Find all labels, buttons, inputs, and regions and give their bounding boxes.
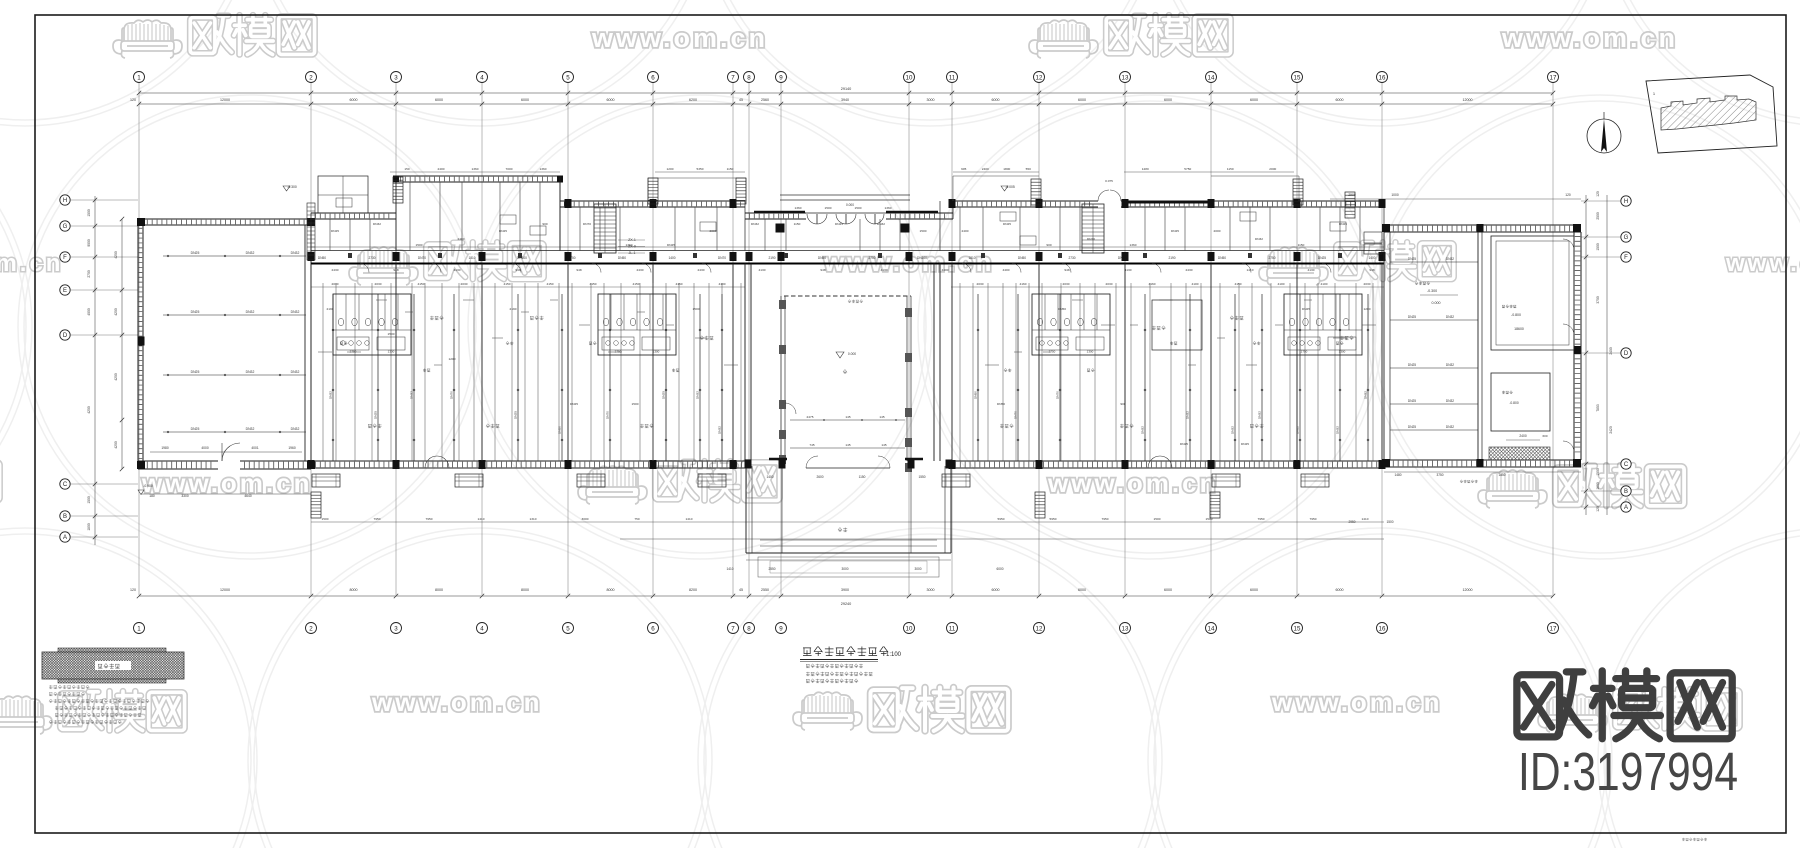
svg-text:2400: 2400 bbox=[458, 237, 465, 241]
svg-text:7950: 7950 bbox=[1258, 517, 1265, 521]
svg-text:5350: 5350 bbox=[697, 167, 704, 171]
svg-text:10: 10 bbox=[906, 625, 913, 632]
svg-text:8200: 8200 bbox=[689, 588, 697, 592]
svg-text:2030: 2030 bbox=[332, 282, 339, 286]
svg-text:5: 5 bbox=[566, 625, 570, 632]
svg-text:2030: 2030 bbox=[375, 282, 382, 286]
svg-text:1500: 1500 bbox=[855, 206, 862, 210]
svg-text:G: G bbox=[63, 224, 68, 230]
svg-text:1500: 1500 bbox=[87, 209, 91, 217]
main corridor walls bbox=[311, 250, 1384, 252]
svg-text:1300: 1300 bbox=[1339, 350, 1346, 354]
svg-text:DN32: DN32 bbox=[751, 222, 759, 226]
svg-text:-0.900: -0.900 bbox=[143, 484, 153, 488]
svg-text:4150: 4150 bbox=[1235, 282, 1242, 286]
svg-text:0.000: 0.000 bbox=[1432, 301, 1441, 305]
svg-text:1: 1 bbox=[137, 625, 141, 632]
svg-text:2030: 2030 bbox=[977, 282, 984, 286]
svg-text:15: 15 bbox=[1294, 625, 1301, 632]
svg-text:DN25: DN25 bbox=[1408, 425, 1416, 429]
svg-text:6: 6 bbox=[651, 625, 655, 632]
svg-text:1360: 1360 bbox=[1130, 243, 1137, 247]
svg-text:DN25: DN25 bbox=[331, 229, 339, 233]
toilet fixture clusters bbox=[333, 294, 411, 355]
svg-text:DN32: DN32 bbox=[373, 222, 381, 226]
svg-text:1150: 1150 bbox=[859, 475, 866, 479]
svg-text:7950: 7950 bbox=[374, 517, 381, 521]
svg-text:1500: 1500 bbox=[920, 229, 927, 233]
svg-text:145: 145 bbox=[879, 415, 884, 419]
svg-text:F: F bbox=[1624, 255, 1628, 261]
svg-text:3000: 3000 bbox=[582, 517, 589, 521]
svg-text:DN32: DN32 bbox=[291, 427, 300, 431]
svg-text:DN70: DN70 bbox=[1014, 411, 1018, 419]
svg-text:948: 948 bbox=[1369, 268, 1374, 272]
svg-text:2560: 2560 bbox=[761, 98, 769, 102]
svg-text:550: 550 bbox=[1026, 167, 1031, 171]
svg-text:2190: 2190 bbox=[327, 307, 334, 311]
svg-text:4200: 4200 bbox=[114, 251, 118, 259]
svg-text:4200: 4200 bbox=[114, 308, 118, 316]
svg-text:-0.800: -0.800 bbox=[1511, 313, 1521, 317]
svg-text:8000: 8000 bbox=[435, 588, 443, 592]
svg-text:DN70: DN70 bbox=[450, 391, 454, 399]
svg-text:4000: 4000 bbox=[201, 446, 209, 450]
svg-text:DN70: DN70 bbox=[418, 256, 426, 260]
svg-text:1410: 1410 bbox=[686, 517, 693, 521]
svg-text:1360: 1360 bbox=[540, 167, 547, 171]
svg-text:DN70: DN70 bbox=[1087, 237, 1095, 241]
svg-text:1500: 1500 bbox=[416, 243, 423, 247]
svg-text:H: H bbox=[1624, 199, 1628, 205]
svg-text:4640: 4640 bbox=[244, 494, 252, 498]
svg-text:www.om.cn: www.om.cn bbox=[1271, 687, 1443, 717]
svg-text:4100: 4100 bbox=[1278, 282, 1285, 286]
svg-text:2030: 2030 bbox=[461, 282, 468, 286]
svg-text:29240: 29240 bbox=[841, 602, 852, 606]
svg-text:1360: 1360 bbox=[472, 167, 479, 171]
svg-text:1150: 1150 bbox=[1227, 167, 1234, 171]
svg-text:DN32: DN32 bbox=[1231, 426, 1235, 434]
svg-text:2750: 2750 bbox=[1301, 350, 1308, 354]
svg-text:E: E bbox=[63, 288, 67, 294]
svg-text:6000: 6000 bbox=[992, 588, 1000, 592]
svg-text:1000: 1000 bbox=[1391, 193, 1399, 197]
svg-text:3700: 3700 bbox=[1596, 296, 1600, 304]
svg-text:2030: 2030 bbox=[1063, 282, 1070, 286]
svg-text:6000: 6000 bbox=[992, 98, 1000, 102]
svg-text:2475: 2475 bbox=[807, 415, 814, 419]
svg-text:DN32: DN32 bbox=[291, 370, 300, 374]
svg-text:4100: 4100 bbox=[719, 282, 726, 286]
svg-text:ID:3197994: ID:3197994 bbox=[1518, 742, 1738, 802]
svg-text:7950: 7950 bbox=[426, 517, 433, 521]
svg-text:H: H bbox=[63, 198, 67, 204]
svg-text:2400: 2400 bbox=[1519, 434, 1527, 438]
svg-text:DN32: DN32 bbox=[410, 391, 414, 399]
svg-text:1150: 1150 bbox=[794, 222, 801, 226]
site logo OMW bbox=[1517, 671, 1732, 739]
svg-text:145: 145 bbox=[881, 443, 886, 447]
svg-text:900: 900 bbox=[542, 222, 547, 226]
svg-text:4160: 4160 bbox=[676, 282, 683, 286]
svg-text:12: 12 bbox=[1036, 74, 1043, 81]
svg-text:0.075: 0.075 bbox=[1105, 179, 1113, 183]
svg-text:0.000: 0.000 bbox=[846, 203, 854, 207]
svg-text:3940: 3940 bbox=[841, 98, 849, 102]
svg-text:14: 14 bbox=[1208, 74, 1215, 81]
svg-text:DN25: DN25 bbox=[514, 411, 518, 419]
svg-text:DN32: DN32 bbox=[1258, 411, 1262, 419]
svg-text:4130: 4130 bbox=[881, 268, 888, 272]
svg-text:1310: 1310 bbox=[530, 517, 537, 521]
svg-text:C: C bbox=[1624, 462, 1629, 468]
svg-text:948: 948 bbox=[1064, 268, 1069, 272]
svg-text:DN32: DN32 bbox=[291, 251, 300, 255]
svg-text:DN25: DN25 bbox=[191, 251, 200, 255]
svg-text:2750: 2750 bbox=[1268, 256, 1275, 260]
svg-text:2730: 2730 bbox=[1068, 256, 1075, 260]
svg-text:600: 600 bbox=[1542, 434, 1547, 438]
svg-text:DN70: DN70 bbox=[718, 256, 726, 260]
svg-text:120: 120 bbox=[130, 588, 136, 592]
svg-text:6: 6 bbox=[651, 74, 655, 81]
svg-text:2430: 2430 bbox=[698, 268, 705, 272]
svg-text:DN32: DN32 bbox=[1296, 426, 1300, 434]
svg-text:C: C bbox=[63, 482, 68, 488]
svg-text:2000: 2000 bbox=[1214, 229, 1221, 233]
svg-text:1800: 1800 bbox=[87, 523, 91, 531]
svg-text:6000: 6000 bbox=[521, 98, 529, 102]
svg-text:2: 2 bbox=[309, 625, 313, 632]
interior staircases bbox=[594, 204, 616, 253]
svg-text:11: 11 bbox=[949, 625, 956, 632]
svg-text:16: 16 bbox=[1379, 74, 1386, 81]
svg-text:6000: 6000 bbox=[607, 98, 615, 102]
svg-text:DN32: DN32 bbox=[1336, 426, 1340, 434]
svg-text:13: 13 bbox=[1122, 74, 1129, 81]
svg-text:2190: 2190 bbox=[510, 307, 517, 311]
left annex (natatorium) walls bbox=[137, 219, 139, 469]
svg-text:1200: 1200 bbox=[449, 357, 456, 361]
svg-text:4150: 4150 bbox=[547, 282, 554, 286]
svg-text:1150: 1150 bbox=[727, 167, 734, 171]
svg-text:145: 145 bbox=[845, 415, 850, 419]
svg-text:4400: 4400 bbox=[1003, 268, 1010, 272]
svg-text:12000: 12000 bbox=[220, 588, 230, 592]
svg-text:15: 15 bbox=[1294, 74, 1301, 81]
svg-text:9000: 9000 bbox=[87, 239, 91, 247]
svg-text:DN50: DN50 bbox=[1058, 307, 1066, 311]
svg-text:4150: 4150 bbox=[633, 282, 640, 286]
svg-text:DN50: DN50 bbox=[974, 391, 978, 399]
svg-text:150: 150 bbox=[404, 167, 409, 171]
svg-text:DN32: DN32 bbox=[696, 391, 700, 399]
svg-text:DN25: DN25 bbox=[835, 222, 843, 226]
svg-text:6000: 6000 bbox=[1336, 98, 1344, 102]
svg-text:1500: 1500 bbox=[322, 517, 329, 521]
svg-text:2700: 2700 bbox=[87, 270, 91, 278]
svg-text:2950: 2950 bbox=[1348, 520, 1355, 524]
svg-text:DN25: DN25 bbox=[570, 402, 578, 406]
svg-text:120: 120 bbox=[1596, 506, 1600, 512]
svg-text:DN25: DN25 bbox=[191, 310, 200, 314]
svg-text:DN70: DN70 bbox=[583, 222, 591, 226]
svg-text:17: 17 bbox=[1550, 74, 1557, 81]
svg-text:2550: 2550 bbox=[761, 588, 769, 592]
svg-text:180: 180 bbox=[149, 494, 155, 498]
svg-text:DN32: DN32 bbox=[329, 391, 333, 399]
svg-text:B: B bbox=[1624, 489, 1628, 495]
svg-text:1800: 1800 bbox=[1003, 167, 1010, 171]
svg-text:DN25: DN25 bbox=[499, 229, 507, 233]
svg-text:4001: 4001 bbox=[251, 446, 259, 450]
svg-text:745: 745 bbox=[809, 443, 814, 447]
svg-text:DN25: DN25 bbox=[1180, 442, 1188, 446]
svg-text:6000: 6000 bbox=[1164, 98, 1172, 102]
svg-text:45: 45 bbox=[739, 98, 743, 102]
svg-text:8000: 8000 bbox=[521, 588, 529, 592]
svg-text:6000: 6000 bbox=[1164, 588, 1172, 592]
svg-text:1:100: 1:100 bbox=[886, 652, 902, 658]
svg-text:1980: 1980 bbox=[161, 446, 169, 450]
svg-text:DN32: DN32 bbox=[1446, 363, 1454, 367]
svg-text:DN50: DN50 bbox=[318, 256, 326, 260]
south exterior wall and bay windows bbox=[311, 460, 746, 462]
svg-text:DN32: DN32 bbox=[718, 426, 722, 434]
svg-text:8: 8 bbox=[747, 625, 751, 632]
svg-text:3: 3 bbox=[394, 74, 398, 81]
svg-text:2750: 2750 bbox=[1049, 350, 1056, 354]
svg-text:2750: 2750 bbox=[350, 350, 357, 354]
svg-text:2750: 2750 bbox=[615, 350, 622, 354]
room partition walls and pipe risers bbox=[310, 264, 312, 462]
svg-text:www.om.cn: www.om.cn bbox=[1725, 250, 1800, 277]
svg-text:3000: 3000 bbox=[927, 98, 935, 102]
svg-text:DN70: DN70 bbox=[1056, 391, 1060, 399]
svg-text:4150: 4150 bbox=[418, 282, 425, 286]
svg-text:4130: 4130 bbox=[1125, 268, 1132, 272]
svg-text:DN25: DN25 bbox=[1241, 442, 1249, 446]
svg-text:www.om.cn: www.om.cn bbox=[1047, 468, 1219, 498]
svg-text:6000: 6000 bbox=[1078, 98, 1086, 102]
key plan hatched bar bbox=[42, 648, 184, 683]
exterior stair ladders bbox=[393, 177, 403, 203]
svg-text:DN32: DN32 bbox=[1141, 426, 1145, 434]
svg-text:DN25: DN25 bbox=[374, 411, 378, 419]
north exterior walls bbox=[311, 212, 396, 214]
svg-text:2000: 2000 bbox=[1269, 167, 1276, 171]
svg-text:948: 948 bbox=[820, 268, 825, 272]
svg-text:A: A bbox=[1624, 505, 1628, 511]
svg-text:1300: 1300 bbox=[653, 350, 660, 354]
right annex (pool hall) walls bbox=[1384, 224, 1581, 226]
svg-text:2430: 2430 bbox=[332, 268, 339, 272]
svg-text:8: 8 bbox=[747, 74, 751, 81]
svg-text:1500: 1500 bbox=[693, 307, 700, 311]
svg-text:www.om.cn: www.om.cn bbox=[0, 250, 63, 277]
svg-text:DN32: DN32 bbox=[246, 370, 255, 374]
svg-text:905: 905 bbox=[961, 167, 966, 171]
svg-text:7853: 7853 bbox=[1596, 404, 1600, 412]
site key plan sketch bbox=[1646, 75, 1777, 153]
svg-text:F: F bbox=[63, 255, 67, 261]
svg-text:3000: 3000 bbox=[914, 567, 921, 571]
svg-text:DN25: DN25 bbox=[191, 370, 200, 374]
svg-text:5950: 5950 bbox=[1050, 517, 1057, 521]
svg-text:7000: 7000 bbox=[506, 167, 513, 171]
svg-text:1: 1 bbox=[137, 74, 141, 81]
svg-text:9: 9 bbox=[779, 74, 783, 81]
north arrow compass bbox=[1587, 119, 1621, 153]
north entrance doors bbox=[807, 214, 884, 224]
svg-text:11: 11 bbox=[949, 74, 956, 81]
svg-text:DN25: DN25 bbox=[1318, 256, 1326, 260]
svg-text:1200: 1200 bbox=[667, 167, 674, 171]
svg-text:1400: 1400 bbox=[766, 475, 773, 479]
svg-text:DN32: DN32 bbox=[1446, 399, 1454, 403]
svg-text:4130: 4130 bbox=[1308, 268, 1315, 272]
svg-text:1600: 1600 bbox=[1596, 482, 1600, 490]
svg-text:2750: 2750 bbox=[868, 256, 875, 260]
svg-text:1410: 1410 bbox=[726, 567, 733, 571]
svg-text:4200: 4200 bbox=[114, 373, 118, 381]
svg-text:16: 16 bbox=[1379, 625, 1386, 632]
svg-text:www.om.cn: www.om.cn bbox=[141, 468, 313, 498]
svg-text:DN32: DN32 bbox=[1446, 425, 1454, 429]
south entrance porch steps bbox=[745, 466, 747, 553]
drawing title and notes bbox=[803, 647, 888, 657]
svg-text:1400: 1400 bbox=[668, 256, 675, 260]
svg-text:1960: 1960 bbox=[288, 446, 296, 450]
svg-text:DN32: DN32 bbox=[246, 310, 255, 314]
svg-text:12000: 12000 bbox=[1463, 98, 1473, 102]
central lobby atrium bbox=[744, 264, 746, 462]
svg-text:8000: 8000 bbox=[607, 588, 615, 592]
svg-text:1550: 1550 bbox=[918, 475, 925, 479]
svg-text:1480: 1480 bbox=[1394, 473, 1401, 477]
svg-text:1150: 1150 bbox=[1298, 243, 1305, 247]
svg-text:5950: 5950 bbox=[998, 517, 1005, 521]
svg-text:DN32: DN32 bbox=[877, 222, 885, 226]
svg-text:DN50: DN50 bbox=[618, 256, 626, 260]
svg-text:DN25: DN25 bbox=[662, 391, 666, 399]
svg-text:4200: 4200 bbox=[87, 406, 91, 414]
svg-text:4: 4 bbox=[480, 74, 484, 81]
svg-text:DN32: DN32 bbox=[1186, 411, 1190, 419]
svg-text:1500: 1500 bbox=[1386, 520, 1393, 524]
svg-text:4100: 4100 bbox=[1192, 282, 1199, 286]
svg-text:-0.300: -0.300 bbox=[1427, 289, 1437, 293]
svg-text:G: G bbox=[1624, 235, 1629, 241]
svg-text:2030: 2030 bbox=[1364, 282, 1371, 286]
svg-text:DN100: DN100 bbox=[917, 256, 927, 260]
svg-text:2900: 2900 bbox=[1348, 193, 1356, 197]
svg-text:12: 12 bbox=[1036, 625, 1043, 632]
svg-text:DN50: DN50 bbox=[818, 256, 826, 260]
svg-text:D: D bbox=[1624, 351, 1629, 357]
svg-text:DN50: DN50 bbox=[1218, 256, 1226, 260]
svg-text:3000: 3000 bbox=[927, 588, 935, 592]
svg-text:DN50: DN50 bbox=[997, 402, 1005, 406]
svg-text:4150: 4150 bbox=[590, 282, 597, 286]
svg-text:DN25: DN25 bbox=[1408, 399, 1416, 403]
svg-text:DN25: DN25 bbox=[1003, 222, 1011, 226]
svg-text:1410: 1410 bbox=[478, 517, 485, 521]
svg-text:DN32: DN32 bbox=[1446, 315, 1454, 319]
svg-text:4: 4 bbox=[480, 625, 484, 632]
svg-text:2430: 2430 bbox=[1186, 268, 1193, 272]
svg-text:4130: 4130 bbox=[759, 268, 766, 272]
svg-text:1500: 1500 bbox=[632, 402, 639, 406]
svg-text:6000: 6000 bbox=[350, 98, 358, 102]
svg-text:DN32: DN32 bbox=[246, 427, 255, 431]
svg-text:1410: 1410 bbox=[1362, 517, 1369, 521]
svg-text:1500: 1500 bbox=[825, 206, 832, 210]
svg-text:29140: 29140 bbox=[841, 87, 852, 91]
svg-text:7950: 7950 bbox=[1310, 517, 1317, 521]
svg-text:145: 145 bbox=[845, 443, 850, 447]
svg-text:4160: 4160 bbox=[1149, 282, 1156, 286]
svg-text:7: 7 bbox=[731, 74, 735, 81]
svg-text:DN50: DN50 bbox=[1018, 256, 1026, 260]
svg-text:45: 45 bbox=[739, 588, 743, 592]
svg-text:D: D bbox=[63, 333, 68, 339]
svg-text:900: 900 bbox=[1120, 402, 1125, 406]
svg-text:DN25: DN25 bbox=[1408, 257, 1416, 261]
svg-text:1850: 1850 bbox=[1498, 473, 1505, 477]
svg-text:3300: 3300 bbox=[181, 494, 189, 498]
svg-text:4160: 4160 bbox=[1020, 282, 1027, 286]
svg-text:9: 9 bbox=[779, 625, 783, 632]
svg-text:0.000: 0.000 bbox=[848, 352, 856, 356]
svg-text:B: B bbox=[63, 514, 67, 520]
svg-text:6000: 6000 bbox=[1336, 588, 1344, 592]
svg-text:1200: 1200 bbox=[1364, 307, 1371, 311]
svg-text:6000: 6000 bbox=[1078, 588, 1086, 592]
svg-text:13: 13 bbox=[1122, 625, 1129, 632]
svg-text:1500: 1500 bbox=[388, 332, 395, 336]
svg-text:DN32: DN32 bbox=[291, 310, 300, 314]
svg-text:12000: 12000 bbox=[220, 98, 230, 102]
svg-text:1500: 1500 bbox=[1596, 243, 1600, 251]
svg-text:1810: 1810 bbox=[968, 256, 975, 260]
svg-text:www.om.cn: www.om.cn bbox=[1501, 23, 1678, 53]
svg-text:2730: 2730 bbox=[368, 256, 375, 260]
svg-text:7950: 7950 bbox=[1102, 517, 1109, 521]
svg-text:DN32: DN32 bbox=[246, 251, 255, 255]
svg-text:10: 10 bbox=[906, 74, 913, 81]
svg-text:4400: 4400 bbox=[942, 268, 949, 272]
svg-text:www.om.cn: www.om.cn bbox=[371, 687, 543, 717]
svg-text:4100: 4100 bbox=[1321, 282, 1328, 286]
svg-text:1810: 1810 bbox=[468, 256, 475, 260]
svg-text:5750: 5750 bbox=[1184, 167, 1191, 171]
svg-text:DN25: DN25 bbox=[667, 243, 675, 247]
svg-text:www.om.cn: www.om.cn bbox=[591, 23, 768, 53]
svg-text:3000: 3000 bbox=[841, 567, 848, 571]
svg-text:1500: 1500 bbox=[1206, 517, 1213, 521]
svg-text:12000: 12000 bbox=[1463, 588, 1473, 592]
svg-text:DN32: DN32 bbox=[1255, 237, 1263, 241]
svg-text:1300: 1300 bbox=[388, 350, 395, 354]
svg-text:DN25: DN25 bbox=[191, 427, 200, 431]
svg-text:5: 5 bbox=[566, 74, 570, 81]
svg-text:2190: 2190 bbox=[1168, 256, 1175, 260]
svg-text:6200: 6200 bbox=[689, 98, 697, 102]
svg-text:1300: 1300 bbox=[1087, 350, 1094, 354]
svg-text:DN70: DN70 bbox=[606, 411, 610, 419]
